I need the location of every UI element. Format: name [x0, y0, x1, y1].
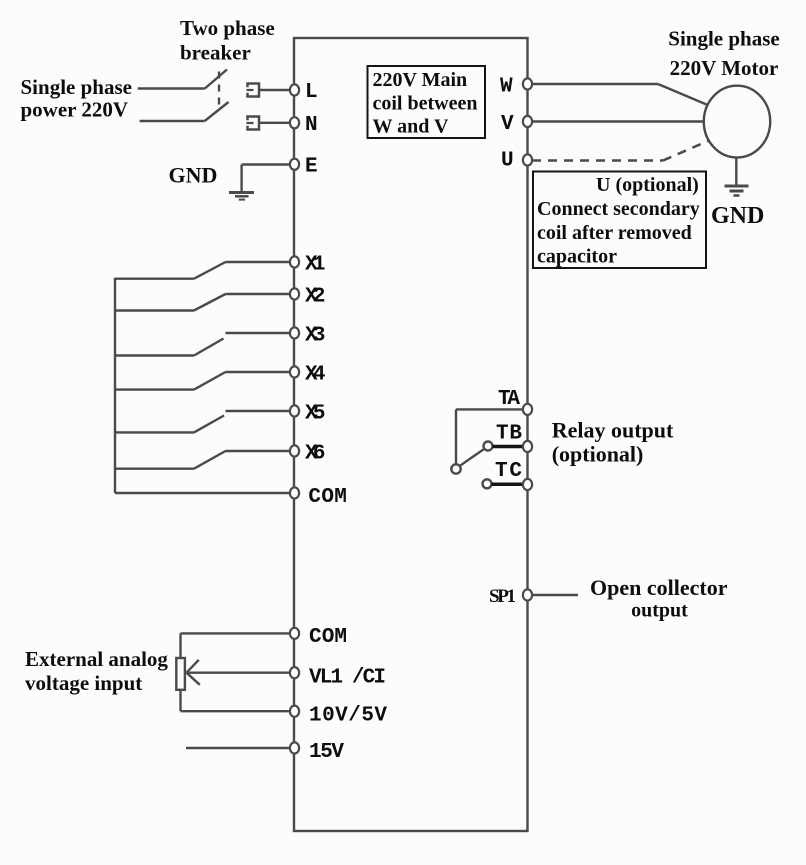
svg-text:L: L	[305, 81, 318, 104]
svg-text:220V Main: 220V Main	[373, 69, 468, 91]
svg-text:10V/5V: 10V/5V	[309, 705, 387, 728]
svg-text:W: W	[500, 75, 513, 98]
svg-text:TB: TB	[496, 423, 522, 446]
svg-text:15V: 15V	[309, 741, 344, 764]
svg-text:U (optional): U (optional)	[596, 174, 699, 196]
svg-text:U: U	[501, 150, 514, 173]
svg-text:coil after removed: coil after removed	[537, 222, 692, 244]
svg-text:coil between: coil between	[373, 93, 478, 115]
svg-text:220V Motor: 220V Motor	[670, 56, 779, 80]
svg-text:COM: COM	[308, 486, 347, 509]
svg-text:Open collector: Open collector	[590, 575, 728, 600]
svg-text:X1: X1	[305, 253, 326, 276]
svg-text:X2: X2	[305, 285, 326, 308]
svg-text:breaker: breaker	[180, 40, 251, 64]
svg-text:Single phase: Single phase	[21, 75, 132, 99]
svg-text:power 220V: power 220V	[21, 98, 129, 122]
svg-text:Single phase: Single phase	[668, 27, 779, 51]
svg-text:X3: X3	[305, 324, 326, 347]
svg-text:VL1 /CI: VL1 /CI	[309, 666, 386, 689]
svg-text:capacitor: capacitor	[537, 246, 617, 268]
svg-text:TC: TC	[495, 460, 522, 483]
svg-text:SP1: SP1	[489, 586, 516, 607]
svg-text:Connect secondary: Connect secondary	[537, 198, 700, 220]
svg-text:COM: COM	[309, 626, 347, 649]
svg-text:Relay output: Relay output	[552, 418, 674, 443]
svg-text:X5: X5	[305, 402, 326, 425]
svg-text:TA: TA	[498, 388, 520, 411]
svg-text:(optional): (optional)	[552, 442, 644, 467]
svg-text:GND: GND	[711, 203, 764, 229]
svg-text:X6: X6	[305, 442, 326, 465]
svg-text:output: output	[631, 600, 688, 622]
svg-text:Two phase: Two phase	[180, 16, 275, 40]
svg-text:X4: X4	[305, 363, 326, 386]
svg-text:V: V	[501, 113, 514, 136]
svg-text:voltage input: voltage input	[25, 671, 142, 695]
svg-text:N: N	[305, 114, 318, 137]
svg-text:E: E	[305, 156, 318, 179]
svg-text:GND: GND	[169, 163, 218, 188]
svg-text:External analog: External analog	[25, 647, 168, 671]
svg-text:W and V: W and V	[373, 116, 450, 138]
